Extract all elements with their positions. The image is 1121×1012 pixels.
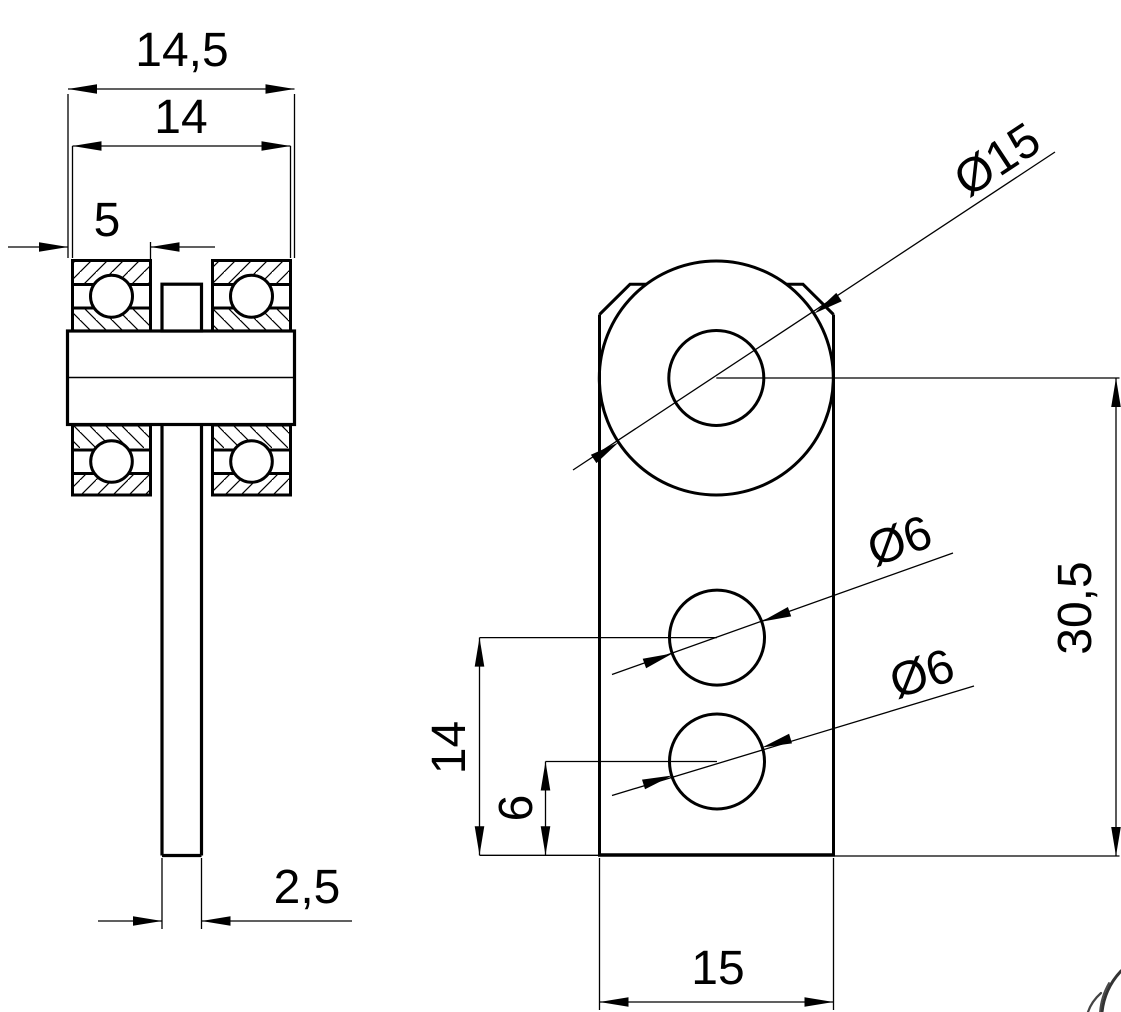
svg-text:30,5: 30,5 <box>1049 561 1102 654</box>
bearing top-left outline <box>73 261 151 332</box>
bearing bottom-left hatched outer band <box>74 426 149 448</box>
leader D6 upper arrowhead right <box>761 607 791 622</box>
dimension 5 right arrowhead <box>151 242 180 252</box>
dimension 14 right-view arrowheads <box>475 638 485 667</box>
dimension 6 line <box>545 762 547 856</box>
svg-text:2,5: 2,5 <box>274 861 341 914</box>
dimension 14 extension lines <box>73 146 291 258</box>
svg-text:14: 14 <box>154 91 207 144</box>
dimension 2,5 right arrowhead <box>202 916 231 926</box>
dimension 15 line <box>600 1001 834 1003</box>
dimension 14,5 extension lines <box>68 94 295 258</box>
leader D15 arrowhead upper <box>814 293 842 314</box>
dimension 6 extension line <box>546 761 718 763</box>
dimension 2,5 extension lines <box>162 858 202 929</box>
bearing bottom-right hatched outer band <box>214 426 289 448</box>
leader D15 arrowhead lower <box>591 442 619 463</box>
dimension 14,5 arrowheads <box>68 84 97 94</box>
leader D6 lower arrowhead left <box>642 776 672 790</box>
bearing top-left hatched outer band <box>74 262 149 284</box>
dimension 14 right-view line <box>479 638 481 856</box>
hole D6 upper <box>670 590 765 685</box>
pulley disc outline <box>68 331 295 425</box>
boss center hole <box>669 331 764 426</box>
dimension 5 left arrowhead <box>39 242 68 252</box>
leader D6 lower line <box>612 686 974 796</box>
dimension 30,5 top extension line <box>716 377 1119 379</box>
dimension 2,5 left tail <box>98 920 162 922</box>
bearing top-right hatched outer band <box>214 262 289 284</box>
dimension 30,5 line <box>1115 378 1117 856</box>
bearing top-left race lines <box>73 285 151 309</box>
svg-text:15: 15 <box>691 942 744 995</box>
bearing top-right race lines <box>213 285 291 309</box>
bearing bottom-right outline <box>213 425 291 495</box>
dimension 14 arrowheads <box>73 141 102 151</box>
boss circle D15 <box>599 261 833 495</box>
shaft top square <box>162 284 202 331</box>
bearing bottom-right hatched inner band <box>214 474 289 494</box>
svg-text:14,5: 14,5 <box>135 24 228 77</box>
bearing bottom-left race lines <box>73 450 151 474</box>
leader D15 line <box>573 152 1055 470</box>
dimension 15 extension lines <box>600 858 834 1010</box>
dimension 14 right-view top extension line <box>480 637 718 639</box>
svg-text:14: 14 <box>423 721 476 774</box>
bearing top-left hatched inner band <box>74 309 149 330</box>
shaft lower stem <box>162 425 202 856</box>
bearing bottom-left outline <box>73 425 151 495</box>
bearing top-right hatched inner band <box>214 309 289 330</box>
svg-text:6: 6 <box>490 795 543 822</box>
bearing bottom-right ball <box>231 441 273 483</box>
hole D6 lower <box>670 714 765 809</box>
watermark arcs bottom-right corner <box>1088 971 1121 1012</box>
dimension 30,5 arrowheads <box>1111 378 1121 407</box>
dimension 5 right extension line <box>150 242 152 259</box>
dimension 2,5 right tail <box>202 920 353 922</box>
svg-text:5: 5 <box>94 194 121 247</box>
dimension 14,5 line <box>68 88 295 90</box>
bearing bottom-left ball <box>91 441 133 483</box>
dimension 14 line <box>73 145 291 147</box>
bearing bottom-left hatched inner band <box>74 474 149 494</box>
dimension 5 line right tail <box>151 246 216 248</box>
dimension 2,5 left arrowhead <box>133 916 162 926</box>
pulley disc mid line <box>68 377 295 379</box>
dimension 30,5 bottom extension line <box>835 855 1120 857</box>
dimension 14 right-view bottom extension line <box>480 854 600 856</box>
dimension 6 arrowheads <box>541 762 551 791</box>
dimension 5 line left tail <box>8 246 68 248</box>
plate right edge <box>832 315 835 856</box>
plate top-right chamfer <box>786 284 833 314</box>
leader D6 upper arrowhead left <box>643 653 673 668</box>
plate left edge <box>598 315 601 856</box>
bearing top-right ball <box>231 275 273 317</box>
bearing top-right outline <box>213 261 291 332</box>
leader D6 upper line <box>612 553 953 675</box>
plate top-left chamfer <box>600 284 647 314</box>
leader D6 lower arrowhead right <box>762 734 792 748</box>
bearing top-left ball <box>91 275 133 317</box>
dimension 15 arrowheads <box>600 997 629 1007</box>
plate bottom edge <box>598 853 835 857</box>
bearing bottom-right race lines <box>213 450 291 474</box>
